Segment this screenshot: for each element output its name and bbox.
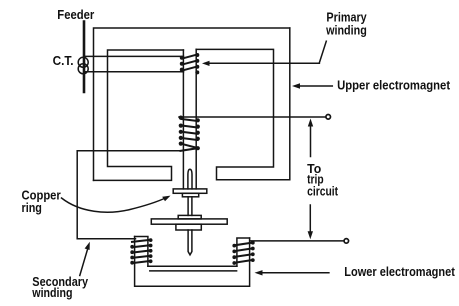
collar above disc: [178, 215, 201, 219]
feeder line: [83, 22, 86, 93]
spindle (middle): [188, 197, 192, 216]
svg-text:C.T.: C.T.: [53, 54, 74, 68]
wire secondary winding to upper trip terminal: [179, 116, 326, 118]
arrow To trip circuit (down): [309, 205, 311, 235]
pointer line from Primary winding label: [205, 41, 326, 63]
curved pointer from Copper ring label: [62, 198, 167, 213]
wire CT to primary winding (top lead): [84, 55, 184, 57]
upper electromagnet central limb: [183, 49, 196, 189]
collar under copper ring: [182, 193, 198, 197]
terminal (lower, to trip circuit): [344, 239, 349, 244]
lower electromagnet right coil: [232, 241, 254, 265]
arrow Secondary winding: [80, 246, 89, 276]
secondary winding coil (on central limb): [179, 116, 200, 151]
C.T. current transformer symbol: [78, 57, 88, 74]
spindle (lower) with pointed tip: [188, 230, 192, 255]
lower core channel floor: [148, 266, 237, 271]
wire CT to primary winding (bottom lead): [84, 71, 184, 73]
svg-text:winding: winding: [31, 286, 72, 300]
arrowhead primary winding pointer: [202, 61, 210, 66]
collar below disc: [176, 224, 201, 230]
svg-text:Feeder: Feeder: [57, 7, 94, 22]
wire lower electromagnet to lower trip terminal: [250, 240, 344, 242]
wire secondary winding to lower electromagnet (left run): [77, 151, 181, 239]
primary winding coil: [180, 53, 200, 74]
lower electromagnet left coil: [130, 238, 152, 264]
disc bar: [151, 219, 227, 224]
svg-text:ring: ring: [22, 201, 42, 215]
arrow To trip circuit (up): [310, 123, 312, 157]
terminal (upper, to trip circuit): [326, 115, 331, 120]
svg-text:winding: winding: [325, 23, 367, 37]
svg-text:circuit: circuit: [307, 184, 339, 198]
wire trip-circuit loop (top + left drop): [94, 28, 290, 180]
svg-text:Upper electromagnet: Upper electromagnet: [337, 78, 451, 92]
arrow Upper electromagnet: [296, 85, 332, 87]
lower electromagnet core outline: [135, 237, 250, 287]
spindle top needle: [188, 169, 192, 189]
upper electromagnet right side outline: [196, 28, 290, 180]
svg-text:Primary: Primary: [326, 10, 366, 24]
upper electromagnet left side outline: [94, 50, 184, 180]
arrow Lower electromagnet: [258, 272, 329, 274]
svg-text:Lower electromagnet: Lower electromagnet: [344, 265, 455, 279]
copper ring bar: [173, 189, 207, 193]
